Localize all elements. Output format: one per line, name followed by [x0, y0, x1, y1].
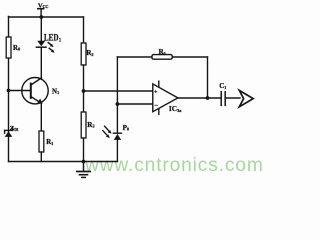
junction dot Vcc node [39, 15, 43, 19]
wire top rail [9, 16, 84, 18]
resistor R3 [81, 112, 94, 138]
wire R3 to bottom rail [83, 138, 85, 162]
svg-text:www.cntronics.com: www.cntronics.com [84, 155, 264, 176]
wire non-inverting input [84, 90, 153, 92]
wire R2 to node A [83, 65, 85, 112]
wire feedback right vertical [207, 57, 209, 98]
svg-text:VCC: VCC [38, 3, 49, 10]
resistor R2 [81, 43, 93, 65]
photodiode P0 [103, 124, 129, 140]
ground [77, 162, 90, 178]
resistor R1 emitter [39, 131, 53, 152]
wire capacitor to output connector [225, 97, 240, 99]
transistor N1 [22, 78, 59, 104]
wire emitter [40, 103, 42, 131]
capacitor C1 [219, 82, 226, 105]
wire base [9, 90, 31, 92]
wire inverting input [117, 103, 152, 105]
svg-text:LED: LED [44, 32, 59, 42]
wire photodiode anode [116, 140, 118, 162]
junction dot ground node [82, 160, 86, 164]
Vcc power terminal [38, 3, 49, 18]
wire LED anode [40, 17, 42, 41]
wire bottom rail [9, 161, 118, 163]
svg-text:−: − [154, 101, 158, 109]
resistor R5 feedback [152, 48, 172, 59]
wire left rail [8, 16, 10, 161]
wire LED cathode to collector [40, 47, 42, 78]
op-amp IC3a [153, 81, 182, 114]
junction dot base node [7, 89, 11, 93]
output connector arrow [239, 90, 253, 106]
junction dot output node [206, 96, 210, 100]
wire feedback top [117, 56, 207, 58]
wire R1 to bottom rail [40, 152, 42, 162]
wire output [178, 97, 221, 99]
zener diode ZD1 [5, 125, 19, 137]
wire feedback left vertical [116, 57, 118, 104]
junction dot inverting node [116, 102, 120, 106]
LED LED1 [36, 32, 61, 52]
svg-text:+: + [154, 90, 158, 96]
wire photodiode cathode [116, 104, 118, 133]
junction dot node A [82, 89, 86, 93]
resistor R0 [6, 37, 20, 58]
wire right branch top [83, 17, 85, 43]
